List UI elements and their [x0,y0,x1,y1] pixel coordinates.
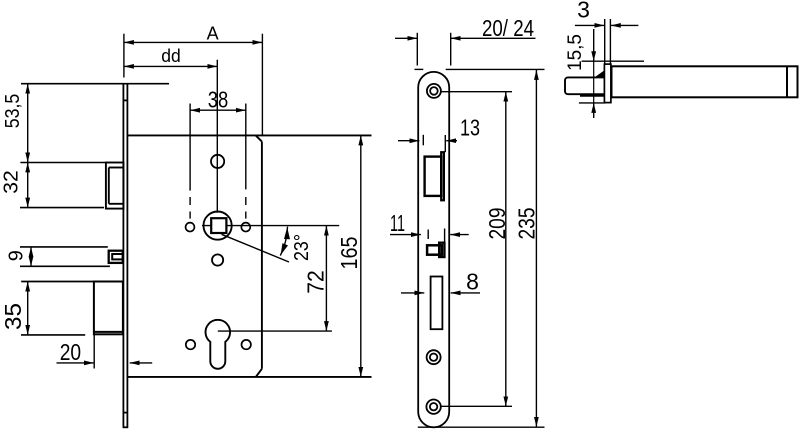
left view: faceplate strip [123,84,129,428]
latch underside thick line [580,94,604,97]
svg-text:A: A [207,24,219,44]
spindle follower circle [204,212,232,240]
vertical centre line [216,60,218,213]
spindle horizontal centre line [202,225,339,227]
dimension 165 [360,135,362,377]
svg-text:32: 32 [1,170,23,194]
deadbolt bottom reference line [21,334,85,336]
svg-text:35: 35 [0,303,26,330]
lower hole [212,254,223,265]
dimension 32 [27,162,29,207]
cylinder horizontal centre line [218,330,332,332]
23 degree leader line [222,234,290,262]
dimension 20 (bolt throw) [57,362,94,364]
middle screw hole [427,350,441,364]
svg-text:23°: 23° [291,234,313,261]
snib bottom reference line [20,265,110,267]
dimension 38 extension lines [190,104,246,219]
dimension 11 line [390,234,421,236]
cylinder right hole [242,340,251,349]
dimension 3 extension lines [604,19,606,64]
dimension 9 [30,247,32,266]
dimension 11 tick [427,230,429,240]
deadbolt face extension line [93,334,95,368]
svg-text:8: 8 [466,269,479,295]
spindle square [211,218,226,233]
svg-text:3: 3 [577,0,590,23]
deadbolt [94,282,123,335]
svg-text:72: 72 [303,270,329,294]
svg-text:13: 13 [460,115,480,141]
top screw hole [427,84,441,98]
bottom screw hole [426,400,440,414]
dimension 13 line [398,140,419,142]
snib top reference line [20,246,108,248]
dimension 235 [535,70,537,427]
latch bottom reference line [20,207,104,209]
dimension 8 line [401,292,424,294]
cylinder left hole [186,340,195,349]
dimension A line [124,41,263,43]
deadbolt top reference line [21,281,123,283]
svg-text:11: 11 [390,210,405,236]
dimension 209 [505,92,507,407]
dimension dd line [124,65,217,67]
latch bevel [595,70,606,78]
dimension 20/24 extension lines [416,33,418,66]
middle view: face plate stadium outline [418,72,449,427]
dimension 35 [27,282,29,335]
dimension 3 line [575,24,604,26]
left fixing hole [186,223,195,232]
svg-text:165: 165 [336,237,362,270]
svg-text:38: 38 [208,87,229,113]
snib front view [427,243,444,257]
svg-text:20/ 24: 20/ 24 [482,15,534,41]
23 degree arc [280,227,287,256]
dimension 13 ticks [422,135,424,146]
top screw centre extension [442,91,513,93]
lock case side view [612,66,798,97]
faceplate edge-on [604,64,611,103]
svg-text:235: 235 [514,208,540,240]
right fixing hole [241,223,250,232]
deadbolt slot [431,277,443,330]
faceplate top reference line [21,83,169,85]
euro cylinder profile [206,320,231,369]
svg-text:15,5: 15,5 [564,34,586,71]
23 degree arc arrows [284,227,290,239]
lock body outline [127,135,371,377]
latch side view [565,77,604,94]
dimension A extension lines [123,34,125,78]
dimension 20/24 line [395,37,417,39]
svg-text:9: 9 [6,250,28,261]
auxiliary snib part [109,251,123,263]
top hole [211,155,224,168]
dimension 72 [325,226,327,332]
plate bottom extension line [418,426,545,428]
bottom extension line [579,102,605,104]
dimension 53,5 [27,84,29,163]
right view: top extension line [582,60,644,62]
dimension 15,5 line [593,29,595,61]
svg-text:209: 209 [484,208,510,240]
plate top extension line [415,68,424,70]
latch bolt head [106,163,124,209]
svg-text:20: 20 [60,339,81,365]
svg-text:53,5: 53,5 [2,94,24,129]
svg-text:dd: dd [161,45,181,66]
latch top reference line [20,162,106,164]
bottom screw centre extension [441,405,512,407]
latch front view [425,152,444,200]
dimension 38 line [190,109,246,111]
